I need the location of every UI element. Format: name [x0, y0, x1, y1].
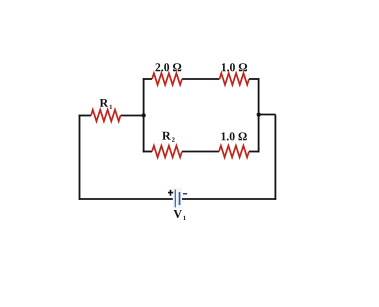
wire bottom branch segment 3	[249, 151, 259, 153]
resistor 2.0 ohm	[152, 73, 182, 85]
battery V1 halo	[173, 188, 182, 209]
node right junction	[257, 113, 261, 117]
wire R1 rail left	[79, 115, 91, 117]
resistor 1.0 ohm bottom	[219, 146, 249, 158]
battery V1 plate negative	[179, 192, 181, 205]
battery plus sign	[168, 190, 173, 196]
wire top branch segment 1	[143, 78, 152, 80]
wire node stub right	[259, 114, 276, 116]
wire bottom branch segment 1	[143, 151, 152, 153]
label R2	[162, 132, 174, 142]
wire bottom left (to battery +)	[79, 198, 176, 200]
resistor 1.0 ohm top	[220, 73, 250, 85]
resistor R1	[91, 110, 121, 122]
wire parallel block right vertical	[258, 78, 260, 152]
label R1	[100, 99, 112, 109]
wire bottom right (battery - to right corner)	[180, 198, 276, 200]
battery minus sign	[183, 193, 187, 195]
wire right vertical	[274, 115, 276, 200]
wire top branch segment 3	[249, 78, 259, 80]
wire parallel block left vertical	[143, 78, 145, 152]
label 1.0 ohm bottom	[221, 132, 246, 140]
label 2.0 ohm	[155, 63, 181, 71]
node left junction	[142, 113, 146, 117]
wire bottom branch segment 2	[182, 151, 219, 153]
battery V1 plate positive	[174, 190, 176, 208]
label 1.0 ohm top	[222, 63, 247, 71]
wire left vertical	[79, 115, 81, 200]
resistor R2	[152, 146, 182, 158]
wire R1 rail right	[121, 115, 144, 117]
wire top branch segment 2	[182, 78, 220, 80]
label V1	[174, 210, 186, 220]
